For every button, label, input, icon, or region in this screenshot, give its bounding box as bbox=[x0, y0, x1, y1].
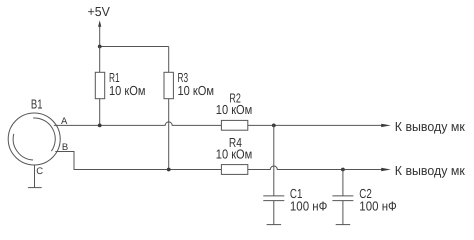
svg-text:10 кОм: 10 кОм bbox=[216, 102, 253, 117]
resistor R3 bbox=[164, 72, 173, 98]
wire A output segment bbox=[248, 124, 382, 126]
node junction C1 on wire A bbox=[272, 124, 276, 128]
wire top rail bbox=[100, 46, 169, 48]
arrow output A bbox=[381, 124, 391, 127]
node B junction with R3 bbox=[167, 168, 171, 172]
svg-text:10 кОм: 10 кОм bbox=[178, 83, 215, 98]
wire C1 top lead bbox=[273, 125, 275, 195]
wire A from encoder to R2 with hop over R3 lead bbox=[54, 122, 222, 125]
wire R1 top lead bbox=[99, 47, 101, 73]
wire C2 top lead bbox=[342, 170, 344, 196]
ground C1 bbox=[267, 224, 282, 226]
wire R3 bottom lead bbox=[168, 99, 170, 170]
node junction C2 on wire B bbox=[341, 168, 345, 172]
svg-text:100 нФ: 100 нФ bbox=[359, 199, 397, 214]
svg-text:B1: B1 bbox=[31, 97, 43, 112]
svg-text:К выводу мк: К выводу мк bbox=[395, 119, 465, 134]
wire C1 bottom lead bbox=[273, 201, 275, 225]
resistor R4 bbox=[221, 165, 247, 175]
wire B output segment with hop over C1 lead bbox=[248, 166, 382, 170]
svg-text:К выводу мк: К выводу мк bbox=[395, 163, 465, 178]
wire pin C lead bbox=[34, 165, 36, 188]
svg-text:C: C bbox=[36, 166, 43, 177]
svg-text:B: B bbox=[62, 142, 68, 153]
wire B from encoder down and right to R4 bbox=[55, 152, 221, 170]
encoder B1 inner arc right bbox=[33, 118, 55, 151]
encoder B1 inner arc left bbox=[13, 134, 33, 160]
wire C2 bottom lead bbox=[342, 201, 344, 225]
+5V supply arrow bbox=[98, 20, 101, 46]
wire R3 top lead bbox=[168, 47, 170, 73]
resistor R1 bbox=[95, 72, 104, 98]
ground C2 bbox=[336, 224, 351, 226]
svg-text:10 кОм: 10 кОм bbox=[109, 83, 146, 98]
node A junction with R1 bbox=[98, 124, 102, 128]
svg-text:10 кОм: 10 кОм bbox=[216, 147, 253, 162]
capacitor C2 bbox=[332, 196, 353, 201]
svg-text:A: A bbox=[61, 116, 68, 127]
encoder B1 body bbox=[8, 113, 60, 165]
svg-text:+5V: +5V bbox=[88, 4, 111, 19]
svg-text:100 нФ: 100 нФ bbox=[290, 199, 328, 214]
arrow output B bbox=[381, 168, 391, 171]
capacitor C1 bbox=[263, 196, 284, 201]
ground pin C bbox=[28, 187, 42, 189]
wire R1 bottom lead bbox=[99, 99, 101, 126]
node top junction bbox=[98, 45, 102, 49]
resistor R2 bbox=[221, 120, 247, 130]
